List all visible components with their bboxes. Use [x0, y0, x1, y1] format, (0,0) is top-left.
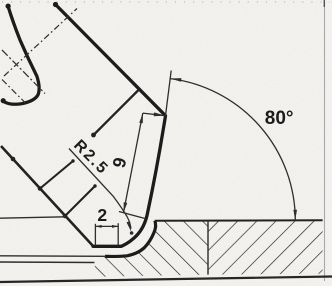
lower sheet top line — [0, 255, 106, 257]
upper part edge: diagonal, face, fillet, groove bottom — [55, 4, 166, 246]
dimension 6: dim line — [124, 113, 143, 212]
perpendicular stub B1 — [94, 90, 140, 136]
hatched section right of divider — [208, 221, 323, 275]
perpendicular stub B2 — [40, 161, 73, 189]
dimension 80: arc — [170, 79, 295, 221]
dimension 6: extension top with arrow at corner — [143, 113, 166, 116]
dimension 6: extension bottom — [119, 212, 146, 219]
center line L2 — [2, 50, 45, 94]
seat outer curve (plate left end) — [105, 221, 156, 257]
plate top surface line — [155, 219, 323, 221]
lower-left edge D2 — [1, 146, 93, 246]
rounded end arc — [3, 6, 39, 104]
horizontal thin surface line — [0, 217, 65, 218]
center line L1 — [4, 9, 77, 77]
dimension 2: arrows — [95, 225, 101, 228]
dimension 6: top arrow — [139, 113, 143, 123]
arc end arrow — [293, 210, 297, 221]
dimension 80: extension line — [166, 71, 172, 116]
dimension 6: bottom arrow — [124, 202, 128, 212]
svg-text:2: 2 — [97, 205, 107, 225]
bottom border — [0, 277, 332, 283]
right border — [324, 1, 326, 281]
center line L2b — [2, 80, 25, 103]
top dotted border — [2, 1, 330, 3]
leader R2.5 — [69, 149, 131, 229]
dimension 2: dim line — [95, 225, 118, 227]
lower sheet bottom line — [0, 261, 95, 264]
dimension 2: extension lines — [94, 224, 96, 246]
svg-text:80°: 80° — [265, 108, 294, 129]
section divider — [207, 221, 209, 275]
arc start arrow — [170, 78, 181, 82]
perpendicular stub B3 — [65, 186, 95, 216]
hatched section left of divider — [94, 221, 208, 277]
